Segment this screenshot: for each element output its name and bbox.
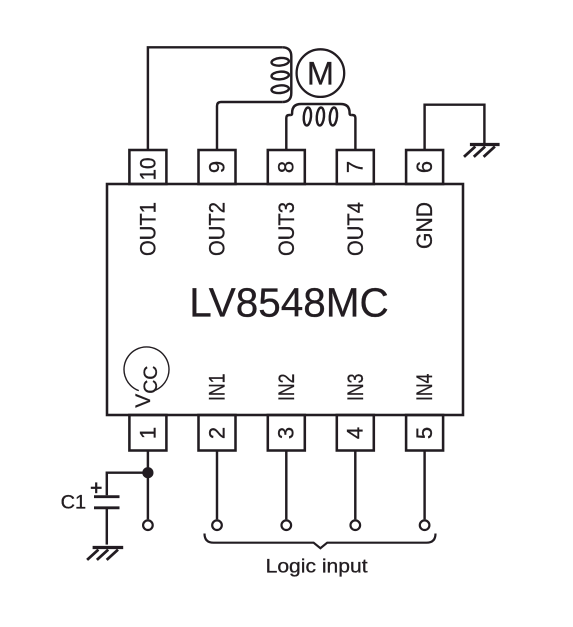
chassis ground (top right) — [464, 145, 500, 157]
pin 5 box — [406, 415, 443, 451]
IC U1 LV8548MC body — [107, 184, 463, 415]
svg-text:C1: C1 — [61, 493, 87, 514]
pin 10 box — [129, 150, 166, 184]
svg-text:2: 2 — [204, 427, 229, 439]
svg-text:OUT3: OUT3 — [274, 202, 299, 256]
pin 1 box — [129, 415, 166, 451]
wire pin 8 lead to winding B — [286, 115, 290, 150]
open terminal IN3 — [351, 520, 361, 530]
wire winding A bottom to pin 9 — [217, 102, 282, 150]
svg-text:6: 6 — [412, 161, 437, 173]
svg-text:1: 1 — [135, 427, 160, 439]
svg-text:4: 4 — [343, 427, 368, 439]
junction dot on VCC net — [142, 467, 153, 478]
open terminal at pin 1 net — [143, 520, 153, 530]
wire capacitor C1 to chassis ground — [106, 508, 108, 545]
capacitor C1 plus polarity mark — [91, 482, 102, 493]
wire pin 10 to winding A top — [148, 47, 282, 150]
wire pin 3 to logic input terminal — [285, 451, 287, 520]
VCC circle annotation — [124, 347, 169, 391]
wire pin 2 to logic input terminal — [216, 451, 218, 520]
svg-text:3: 3 — [274, 427, 299, 439]
pin 9 box — [199, 150, 236, 184]
wire winding B to pin 7 lead — [351, 115, 355, 150]
svg-text:OUT1: OUT1 — [136, 202, 161, 256]
svg-text:IN2: IN2 — [274, 374, 299, 402]
pin 2 box — [199, 415, 236, 451]
pin 6 box — [406, 150, 443, 184]
wire junction to capacitor C1 — [107, 473, 148, 496]
wire pin 4 to logic input terminal — [354, 451, 356, 520]
open terminal IN2 — [282, 520, 292, 530]
svg-text:IN1: IN1 — [205, 374, 230, 402]
svg-text:LV8548MC: LV8548MC — [189, 280, 389, 326]
open terminal IN1 — [212, 520, 222, 530]
open terminal IN4 — [420, 520, 430, 530]
pin 7 box — [337, 150, 374, 184]
svg-text:OUT4: OUT4 — [343, 202, 368, 256]
brace for logic inputs — [205, 534, 436, 549]
wire pin 6 to chassis ground — [425, 105, 485, 150]
pin 3 box — [268, 415, 305, 451]
pin 8 box — [268, 150, 305, 184]
chassis ground (bottom left) — [87, 548, 123, 560]
motor winding A (vertical coil, pins 10-9) — [271, 47, 291, 102]
svg-text:IN4: IN4 — [412, 374, 437, 402]
motor M1 circle — [297, 49, 345, 97]
motor winding B (horizontal coil, pins 8-7) — [291, 104, 352, 126]
svg-text:5: 5 — [412, 427, 437, 439]
wire pin 5 to logic input terminal — [423, 451, 425, 520]
wire pin 1 to VCC terminal — [147, 451, 149, 520]
svg-text:7: 7 — [343, 161, 368, 173]
pin 4 box — [337, 415, 374, 451]
svg-text:M: M — [307, 55, 334, 91]
svg-text:OUT2: OUT2 — [205, 202, 230, 256]
capacitor C1 plates — [94, 497, 120, 508]
svg-text:8: 8 — [274, 161, 299, 173]
svg-text:IN3: IN3 — [343, 374, 368, 402]
svg-text:Logic input: Logic input — [266, 556, 369, 578]
svg-text:10: 10 — [135, 158, 160, 181]
svg-text:9: 9 — [204, 161, 229, 173]
svg-text:GND: GND — [412, 202, 437, 249]
